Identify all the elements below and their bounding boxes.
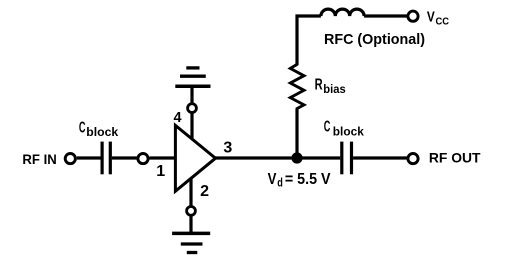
inductor RFC — [321, 9, 364, 16]
svg-text:V: V — [427, 10, 435, 26]
svg-text:C: C — [324, 119, 331, 136]
svg-text:2: 2 — [200, 183, 209, 200]
wire pin 2 circle down to bottom ground — [189, 215, 192, 234]
ground (top, inverted) — [175, 68, 210, 86]
wire amplifier pin 4 up to circle — [190, 113, 193, 140]
resistor R_bias — [290, 64, 304, 109]
wire junction to output C_block — [297, 156, 340, 159]
svg-text:V: V — [268, 171, 277, 188]
label C_block (input) — [79, 120, 119, 139]
wire output C_block to RF OUT terminal — [353, 156, 407, 159]
capacitor C_block (input) — [102, 142, 110, 175]
wire pin 4 circle up to top ground — [190, 85, 193, 104]
wire amplifier output pin 3 to junction node — [214, 156, 297, 159]
svg-text:C: C — [79, 120, 86, 137]
svg-text:CC: CC — [436, 17, 450, 28]
svg-text:R: R — [315, 76, 323, 93]
pin 2 node circle — [187, 207, 196, 216]
junction node Vd — [291, 152, 302, 163]
wire junction up to resistor — [295, 109, 298, 158]
capacitor C_block (output) — [342, 142, 352, 175]
input node circle at pin 1 — [138, 154, 148, 164]
wire C_block to input node circle — [112, 156, 137, 159]
label R_bias — [315, 76, 346, 96]
svg-text:RF OUT: RF OUT — [429, 150, 481, 166]
wire node circle to amplifier pin 1 — [150, 156, 177, 159]
Vcc terminal — [408, 11, 418, 21]
op-amp U1 amplifier triangle — [175, 125, 215, 191]
svg-text:block: block — [86, 125, 118, 139]
wire RF IN terminal to C_block input cap — [77, 156, 101, 159]
svg-text:= 5.5 V: = 5.5 V — [285, 171, 331, 188]
wire resistor top to corner and right to inductor — [297, 16, 321, 65]
label C_block (output) — [324, 119, 364, 139]
svg-text:RFC (Optional): RFC (Optional) — [324, 31, 425, 48]
wire amplifier pin 2 down to circle — [189, 178, 192, 207]
svg-text:4: 4 — [174, 110, 182, 126]
svg-text:RF IN: RF IN — [22, 151, 56, 167]
wire inductor to Vcc terminal — [364, 14, 407, 17]
svg-text:d: d — [277, 176, 283, 190]
ground (bottom) — [172, 233, 210, 252]
svg-text:block: block — [333, 125, 364, 139]
svg-text:3: 3 — [223, 139, 232, 156]
RF OUT terminal — [408, 154, 418, 164]
pin 4 node circle — [188, 104, 197, 113]
svg-text:1: 1 — [156, 163, 165, 180]
label Vd = 5.5 V — [268, 171, 331, 190]
RF IN terminal — [65, 154, 75, 164]
svg-text:bias: bias — [323, 82, 346, 96]
label Vcc — [427, 10, 449, 28]
